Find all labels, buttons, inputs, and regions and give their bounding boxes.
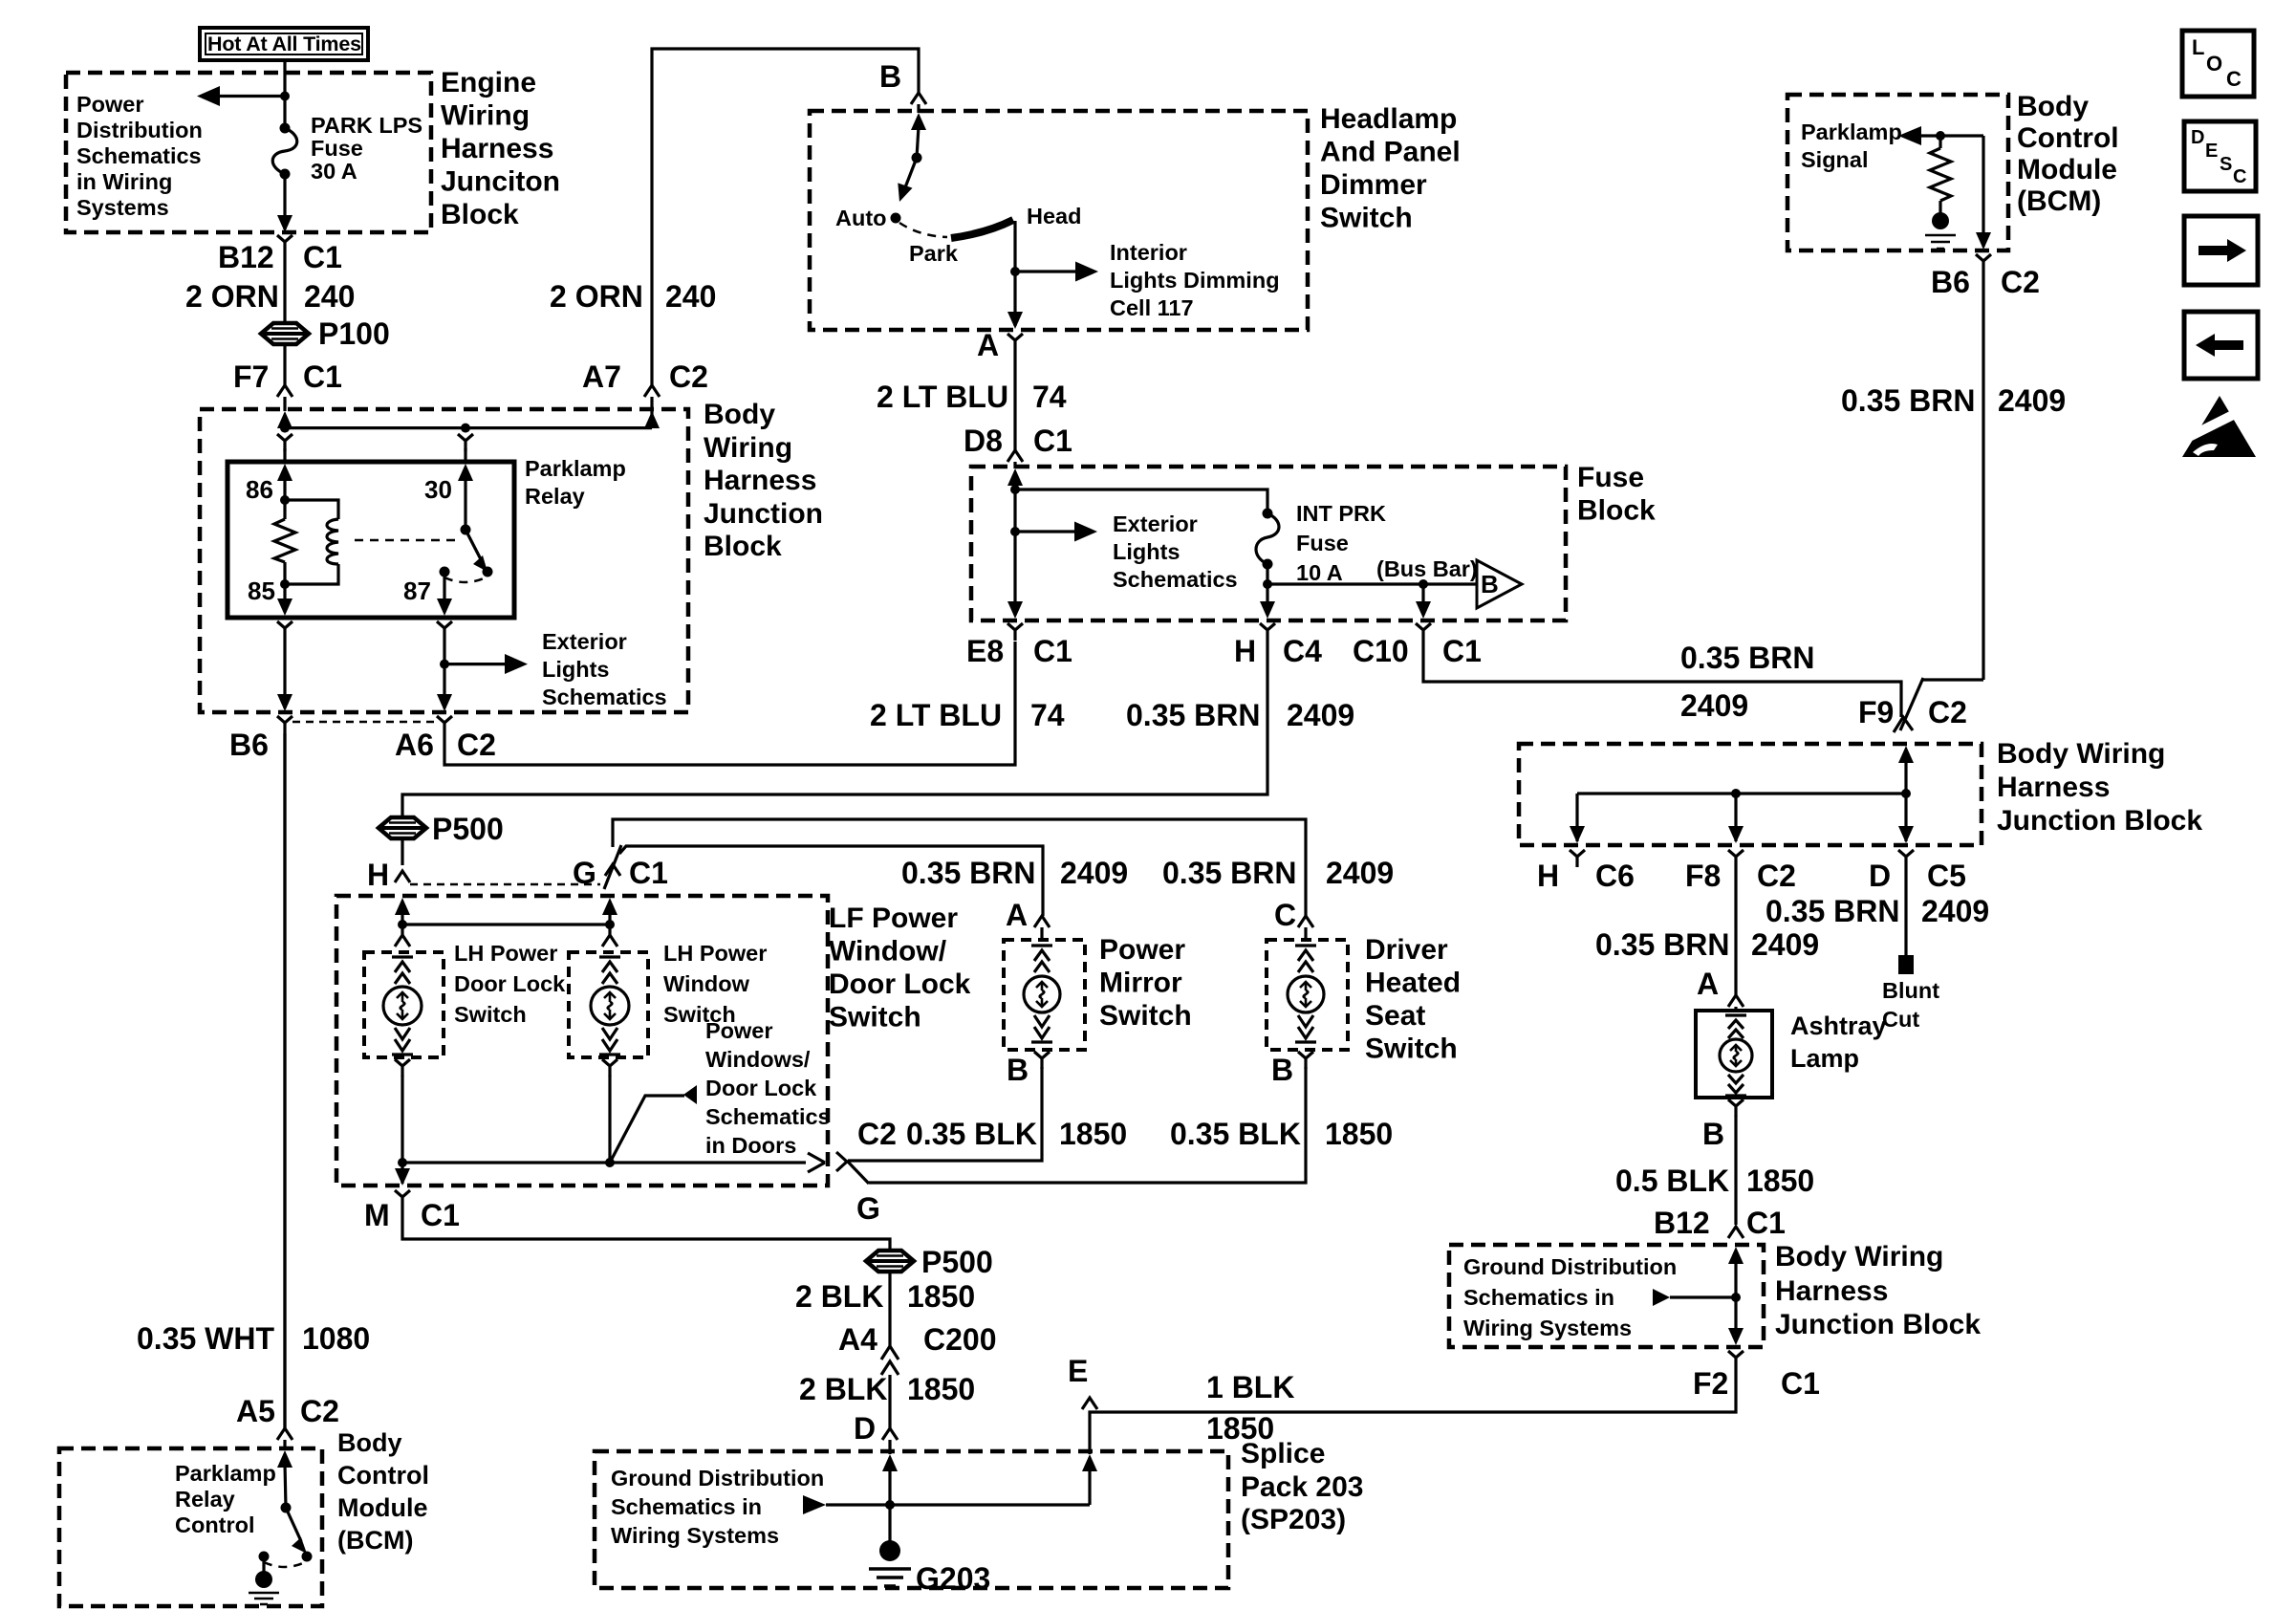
svg-text:Blunt: Blunt (1882, 978, 1939, 1003)
svg-text:0.35 BRN: 0.35 BRN (901, 856, 1036, 890)
svg-text:And Panel: And Panel (1320, 137, 1461, 168)
ground BCM internal (1932, 212, 1949, 229)
node distribution bus in junction block (285, 426, 652, 429)
svg-text:C1: C1 (303, 359, 342, 394)
svg-text:0.5 BLK: 0.5 BLK (1615, 1164, 1729, 1198)
wire H/C4 down and left to P500 (402, 641, 1267, 818)
svg-text:F2: F2 (1693, 1366, 1728, 1401)
wire G to Driver Heated Seat Switch C (613, 819, 1306, 916)
svg-text:2409: 2409 (1921, 894, 1989, 928)
svg-text:240: 240 (665, 279, 716, 314)
svg-text:P500: P500 (432, 812, 504, 846)
lamp power mirror switch illumination (1024, 976, 1060, 1012)
svg-text:C2: C2 (457, 728, 496, 762)
fuse INT PRK 10A (1263, 509, 1273, 519)
connector C10/C1 (Y) (1416, 623, 1431, 641)
exit arrow M at LF box bottom (401, 1163, 403, 1184)
svg-text:S: S (2220, 154, 2232, 175)
svg-text:B12: B12 (218, 240, 274, 274)
svg-text:A: A (1697, 967, 1719, 1001)
svg-text:L: L (2192, 35, 2204, 59)
wire A7 riser up and over to headlamp B (652, 49, 919, 385)
connector H/C4 (Y) (1260, 623, 1275, 641)
wire M/C1 down to P500 (402, 1207, 890, 1251)
connector to LH window switch (Y) (608, 925, 611, 935)
svg-text:Junction: Junction (704, 498, 823, 530)
svg-text:Window/: Window/ (829, 936, 947, 968)
svg-text:C4: C4 (1283, 634, 1322, 668)
svg-text:Power: Power (1099, 934, 1185, 966)
svg-text:Schematics: Schematics (705, 1104, 831, 1129)
wire bus bar (1266, 564, 1268, 615)
svg-text:F8: F8 (1685, 859, 1721, 893)
pin 87 wire exit (443, 572, 445, 612)
svg-text:C2: C2 (2001, 265, 2040, 299)
svg-text:O: O (2206, 52, 2222, 76)
svg-text:Harness: Harness (1775, 1275, 1888, 1307)
svg-text:Body: Body (337, 1428, 402, 1457)
svg-text:A5: A5 (236, 1394, 275, 1428)
svg-text:Park: Park (909, 241, 959, 266)
svg-text:Body Wiring: Body Wiring (1997, 738, 2165, 770)
svg-text:B12: B12 (1654, 1206, 1710, 1240)
connector A4/C200 (double chevron) (881, 1346, 899, 1375)
svg-text:Seat: Seat (1365, 1000, 1425, 1032)
svg-text:1850: 1850 (907, 1372, 975, 1406)
SECTION: Splice Pack 203 (595, 1451, 1228, 1588)
splice P500 (second) (866, 1251, 914, 1272)
svg-text:B: B (1271, 1053, 1293, 1087)
svg-text:Interior: Interior (1110, 240, 1187, 265)
svg-text:Head: Head (1027, 204, 1081, 228)
Body Control Module (BCM) dashed box bottom left (59, 1448, 322, 1606)
svg-text:B: B (879, 59, 901, 94)
connector A7/C2 (caret) (644, 385, 660, 397)
connector E (caret) (1082, 1398, 1097, 1409)
node Hot At All Times box (200, 28, 368, 60)
svg-text:Parklamp: Parklamp (1801, 120, 1902, 144)
svg-text:C1: C1 (1781, 1366, 1820, 1401)
svg-text:Block: Block (441, 199, 519, 230)
icon LOC (2182, 31, 2254, 97)
svg-text:0.35 BRN: 0.35 BRN (1162, 856, 1297, 890)
svg-text:Hot At All Times: Hot At All Times (207, 33, 361, 55)
svg-text:Switch: Switch (829, 1002, 921, 1033)
svg-text:C1: C1 (629, 856, 668, 890)
svg-text:2409: 2409 (1060, 856, 1128, 890)
svg-text:Power: Power (76, 92, 144, 117)
svg-text:Systems: Systems (76, 195, 169, 220)
svg-text:Harness: Harness (1997, 772, 2110, 803)
connector below relay pin87 (Y) (437, 621, 452, 639)
svg-text:in Wiring: in Wiring (76, 169, 172, 194)
svg-text:LH Power: LH Power (663, 941, 767, 966)
svg-text:1850: 1850 (907, 1279, 975, 1314)
node coil/resistor top (280, 495, 290, 505)
connector G/C2 exit with slash (836, 1152, 869, 1184)
connector to LH door lock switch (Y) (401, 925, 403, 935)
pin chevrons top window switch (599, 957, 620, 984)
lamp heated seat switch illumination (1288, 976, 1324, 1012)
svg-text:E: E (1068, 1354, 1088, 1388)
relay Parklamp Relay box (227, 462, 514, 618)
switch headlamp selector (912, 153, 922, 163)
svg-text:M: M (364, 1198, 390, 1232)
svg-text:Switch: Switch (1320, 203, 1413, 234)
wire F2 to splice pack E (1090, 1368, 1736, 1454)
wire fuse to bottom of engine block with down arrow (283, 174, 286, 229)
entry arrow D (882, 1454, 898, 1471)
wire G/C2 to heated seat B (869, 1067, 1306, 1183)
svg-text:1080: 1080 (302, 1321, 370, 1356)
connector B below ashtray (Y) (1728, 1099, 1744, 1117)
node junction dot at fuse top feed (280, 92, 290, 101)
relay coil (285, 500, 338, 519)
svg-text:2 ORN: 2 ORN (185, 279, 279, 314)
connector H (Y) (395, 871, 410, 882)
svg-text:C10: C10 (1353, 634, 1409, 668)
svg-text:2409: 2409 (1326, 856, 1394, 890)
svg-text:Signal: Signal (1801, 147, 1869, 172)
svg-text:F9: F9 (1858, 695, 1894, 729)
svg-text:0.35 BRN: 0.35 BRN (1595, 927, 1730, 962)
exit arrows right JB (1575, 794, 1578, 841)
svg-text:Switch: Switch (1099, 1000, 1192, 1032)
wire P100 to F7 (283, 344, 286, 385)
wire parklamp signal arrow (1914, 134, 1983, 137)
node internal bus right JB (1577, 792, 1906, 794)
wire label 2 BLK 1850 (888, 1272, 891, 1346)
resistor relay coil suppression (283, 500, 286, 519)
svg-text:Door Lock: Door Lock (454, 971, 566, 996)
wire D/C5 to blunt cut (1904, 867, 1907, 955)
svg-text:Schematics in: Schematics in (1463, 1285, 1614, 1310)
svg-text:Junction Block: Junction Block (1997, 805, 2202, 837)
pin 86 entry arrow (277, 464, 292, 481)
connector A ashtray (caret) (1728, 995, 1744, 1007)
svg-text:PARK LPS: PARK LPS (311, 113, 422, 138)
connector B6/C2 (Y) (1976, 254, 1991, 272)
svg-text:1 BLK: 1 BLK (1206, 1370, 1294, 1404)
icon arrow left (2184, 312, 2258, 379)
icon arrow right (2184, 216, 2258, 285)
svg-text:H: H (367, 858, 389, 892)
svg-text:Dimmer: Dimmer (1320, 169, 1427, 201)
connector A6/C2 below block (Y) (437, 716, 452, 733)
icon ESD warning (2172, 396, 2256, 457)
svg-text:C: C (2226, 67, 2242, 91)
svg-text:0.35 WHT: 0.35 WHT (137, 1321, 274, 1356)
svg-text:E: E (2205, 141, 2218, 162)
wire F8/C2 to ashtray lamp (1734, 867, 1737, 995)
svg-text:B: B (1007, 1053, 1029, 1087)
svg-text:Ground Distribution: Ground Distribution (611, 1466, 824, 1490)
node exterior lights tap in fuse block (1010, 527, 1020, 536)
LH Power Window Switch dashed box (569, 952, 648, 1057)
connector below window switch (Y) (602, 1059, 617, 1077)
svg-text:Switch: Switch (454, 1002, 527, 1027)
reference arrow Power Windows/Door Lock Schematics in Doors (610, 1096, 684, 1163)
svg-text:A7: A7 (582, 359, 621, 394)
Engine Wiring Harness Junciton Block dashed box (66, 73, 431, 232)
svg-text:1850: 1850 (1059, 1117, 1127, 1151)
svg-text:Schematics in: Schematics in (611, 1494, 762, 1519)
connector to relay pin 86 (Y) (277, 434, 292, 451)
Power Mirror Switch dashed box (1004, 940, 1085, 1050)
connector B12/C1 (Y) (1728, 1227, 1744, 1238)
svg-text:Wiring Systems: Wiring Systems (1463, 1316, 1632, 1340)
entry arrow B12 (1728, 1247, 1744, 1264)
svg-text:D: D (2191, 127, 2204, 148)
svg-text:C2: C2 (669, 359, 708, 394)
svg-text:D: D (854, 1411, 876, 1446)
wire down to P100 (283, 252, 286, 323)
pin chevrons bottom mirror (1031, 1015, 1052, 1042)
node ground bus inside LF switch (402, 1161, 806, 1164)
svg-text:Cut: Cut (1882, 1007, 1919, 1032)
svg-text:0.35 BLK: 0.35 BLK (906, 1117, 1037, 1151)
svg-text:Lights Dimming: Lights Dimming (1110, 268, 1280, 293)
svg-text:Body Wiring: Body Wiring (1775, 1241, 1943, 1273)
entry arrow G (602, 898, 617, 915)
svg-text:C1: C1 (421, 1198, 460, 1232)
LH Power Door Lock Switch dashed box (364, 952, 444, 1057)
svg-text:C1: C1 (1442, 634, 1482, 668)
svg-text:2409: 2409 (1680, 688, 1748, 723)
lamp LH door lock switch illumination (383, 987, 422, 1025)
node ground ref junction (1731, 1293, 1741, 1302)
svg-text:1850: 1850 (1325, 1117, 1393, 1151)
connector D splice pack (caret) (882, 1428, 898, 1440)
connector A (caret) (1034, 916, 1050, 927)
SECTION: Body Wiring Harness Junction Block (right) (1519, 744, 1982, 845)
svg-text:30 A: 30 A (311, 159, 357, 184)
svg-text:74: 74 (1032, 380, 1067, 414)
svg-text:Cell 117: Cell 117 (1110, 295, 1194, 320)
svg-text:Lamp: Lamp (1790, 1044, 1859, 1073)
svg-text:Exterior: Exterior (1113, 511, 1198, 536)
svg-text:LH Power: LH Power (454, 941, 557, 966)
svg-text:0.35 BRN: 0.35 BRN (1765, 894, 1900, 928)
svg-text:Ground Distribution: Ground Distribution (1463, 1254, 1677, 1279)
connector A below headlamp switch (Y) (1007, 334, 1023, 351)
wire B6/C2 down from BCM (1982, 136, 1984, 247)
svg-text:Window: Window (663, 971, 750, 996)
svg-text:E8: E8 (966, 634, 1004, 668)
svg-text:(SP203): (SP203) (1241, 1504, 1346, 1535)
SECTION: BCM bottom left (283, 733, 286, 1428)
exit arrow F2 (1728, 1328, 1744, 1345)
entry arrow B (911, 113, 926, 130)
wire G to Power Mirror Switch A (619, 846, 1043, 916)
svg-text:2 BLK: 2 BLK (795, 1279, 883, 1314)
svg-text:C200: C200 (923, 1322, 997, 1357)
connector B6 below block (Y) (277, 716, 292, 733)
connector D/C5 (Y) (1898, 850, 1914, 867)
connector F9/C2 with slash (1894, 678, 1923, 732)
resistor BCM pull-up (1939, 136, 1941, 148)
pin chevrons top ashtray (1725, 1015, 1746, 1038)
entry arrow H (395, 898, 410, 915)
connector to relay pin 30 (Y) (458, 434, 473, 451)
svg-text:2409: 2409 (1998, 383, 2066, 418)
connector face dashed line B6-A6 (292, 721, 436, 724)
wire P500 to H connector (401, 838, 403, 865)
svg-text:Control: Control (2017, 122, 2119, 154)
entry arrow E (1082, 1454, 1097, 1471)
connector below door lock (Y) (395, 1059, 410, 1077)
svg-text:Harness: Harness (441, 133, 553, 164)
svg-text:C: C (2233, 166, 2246, 187)
svg-text:D: D (1869, 859, 1891, 893)
svg-text:Windows/: Windows/ (705, 1047, 811, 1072)
svg-text:Block: Block (1577, 495, 1656, 527)
svg-text:B: B (1481, 570, 1499, 598)
connector B below seat (Y) (1298, 1052, 1313, 1069)
connector M/C1 (Y) (395, 1190, 410, 1207)
svg-text:P100: P100 (318, 316, 390, 351)
connector B12/C1 (Y symbol) (277, 235, 292, 252)
svg-text:Lights: Lights (542, 657, 610, 682)
svg-text:Fuse: Fuse (1577, 462, 1644, 493)
svg-text:C1: C1 (1746, 1206, 1786, 1240)
pin chevrons top door lock (392, 957, 413, 984)
entry arrow F7 (277, 411, 292, 428)
pin chevrons bottom seat (1295, 1015, 1316, 1042)
switch blade thick arc at Head (951, 220, 1013, 238)
svg-text:B6: B6 (229, 728, 269, 762)
connector face dashed line H-G (410, 883, 600, 886)
svg-text:(BCM): (BCM) (337, 1526, 413, 1555)
wire from Hot At All Times down into engine junction block (283, 60, 286, 96)
svg-text:2409: 2409 (1287, 698, 1354, 732)
pin 30 entry arrow and wire to switch pivot (458, 464, 473, 481)
svg-text:Pack 203: Pack 203 (1241, 1471, 1363, 1503)
svg-text:C: C (1274, 898, 1296, 932)
svg-text:Junction Block: Junction Block (1775, 1309, 1981, 1340)
svg-text:in Doors: in Doors (705, 1133, 796, 1158)
svg-text:(Bus Bar): (Bus Bar) (1376, 556, 1478, 581)
node internal bus LF switch (402, 923, 610, 925)
SECTION: Body Wiring Harness Junction Block (bottom right) (1449, 1245, 1764, 1347)
Driver Heated Seat Switch dashed box (1267, 940, 1348, 1050)
svg-text:C6: C6 (1595, 859, 1635, 893)
SECTION: Body Control Module (top right) (1787, 95, 2008, 250)
node bus bar B triangle (1477, 560, 1522, 608)
pin 85 wire exit (283, 584, 286, 612)
svg-text:Driver: Driver (1365, 934, 1448, 966)
svg-text:Wiring: Wiring (441, 100, 530, 132)
svg-text:Headlamp: Headlamp (1320, 103, 1457, 135)
svg-text:Body: Body (2017, 91, 2089, 122)
svg-text:Switch: Switch (1365, 1033, 1458, 1065)
node parklamp signal junction (1936, 131, 1945, 141)
svg-text:C1: C1 (1033, 634, 1072, 668)
svg-text:C2: C2 (857, 1117, 897, 1151)
svg-text:Wiring Systems: Wiring Systems (611, 1523, 779, 1548)
svg-text:A6: A6 (395, 728, 434, 762)
svg-text:A: A (977, 328, 999, 362)
svg-text:0.35 BRN: 0.35 BRN (1841, 383, 1976, 418)
pin chevrons bottom ashtray (1725, 1075, 1746, 1096)
svg-text:Module: Module (337, 1493, 428, 1522)
svg-text:H: H (1234, 634, 1256, 668)
svg-text:Mirror: Mirror (1099, 968, 1182, 999)
pin chevrons bottom window switch (599, 1028, 620, 1055)
svg-text:1850: 1850 (1746, 1164, 1814, 1198)
svg-text:Fuse: Fuse (1296, 531, 1349, 555)
svg-text:C2: C2 (1928, 695, 1967, 729)
svg-text:Door Lock: Door Lock (829, 968, 971, 1000)
svg-text:G203: G203 (916, 1561, 990, 1596)
svg-text:Relay: Relay (175, 1487, 235, 1512)
connector C (caret) (1298, 916, 1313, 927)
splice P100 (261, 323, 309, 344)
wire from Head contact down (1013, 221, 1016, 326)
connector E8/C1 (Y) (1007, 623, 1023, 641)
node blunt cut (1898, 955, 1914, 974)
svg-text:C1: C1 (303, 240, 342, 274)
dashed arc Auto to Park (899, 223, 947, 237)
svg-text:C1: C1 (1033, 424, 1072, 458)
wire A6/C2 down and right to E8 (444, 642, 1015, 765)
node Auto contact (891, 213, 901, 224)
svg-text:INT PRK: INT PRK (1296, 501, 1386, 526)
svg-text:2409: 2409 (1751, 927, 1819, 962)
switch parklamp relay control driver (281, 1503, 292, 1513)
ground G203 (879, 1540, 900, 1561)
fuse PARK LPS 30A (280, 123, 291, 134)
SECTION: Body Wiring Harness Junction Block (left) (200, 409, 688, 712)
svg-text:Splice: Splice (1241, 1438, 1325, 1469)
svg-text:Lights: Lights (1113, 539, 1180, 564)
connector F7/C1 (caret) (277, 385, 292, 397)
connector F8/C2 (Y) (1728, 850, 1744, 867)
svg-text:Engine: Engine (441, 67, 536, 98)
svg-text:Body: Body (704, 399, 775, 430)
svg-text:Exterior: Exterior (542, 629, 627, 654)
node splice bus (826, 1503, 1090, 1506)
svg-text:240: 240 (304, 279, 355, 314)
lamp LH window switch illumination (591, 987, 629, 1025)
svg-text:C2: C2 (1757, 859, 1796, 893)
node feed to INT PRK fuse (1010, 485, 1020, 494)
svg-text:Auto: Auto (835, 206, 887, 230)
connector A5/C2 (caret) (277, 1428, 292, 1440)
svg-text:2 ORN: 2 ORN (550, 279, 643, 314)
entry arrow A5 (277, 1450, 292, 1468)
svg-text:30: 30 (424, 475, 452, 504)
connector H/C6 (Y) (1570, 850, 1585, 867)
svg-text:C5: C5 (1927, 859, 1966, 893)
svg-text:0.35 BRN: 0.35 BRN (1126, 698, 1261, 732)
svg-text:Schematics: Schematics (76, 143, 202, 168)
svg-text:G: G (856, 1191, 880, 1226)
svg-text:Power: Power (705, 1018, 773, 1043)
svg-text:Junciton: Junciton (441, 166, 560, 198)
svg-text:Harness: Harness (704, 465, 816, 496)
svg-text:Door Lock: Door Lock (705, 1076, 817, 1100)
svg-text:2 BLK: 2 BLK (799, 1372, 887, 1406)
svg-text:Parklamp: Parklamp (525, 456, 626, 481)
svg-text:Module: Module (2017, 154, 2117, 185)
pin chevrons top mirror (1031, 946, 1052, 972)
svg-text:Fuse: Fuse (311, 136, 363, 161)
svg-text:H: H (1537, 859, 1559, 893)
svg-text:F7: F7 (233, 359, 269, 394)
exit arrows at fuse block bottom (1007, 601, 1023, 619)
svg-text:Wiring: Wiring (704, 432, 792, 464)
